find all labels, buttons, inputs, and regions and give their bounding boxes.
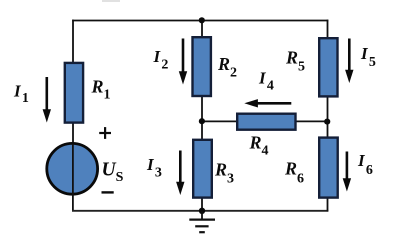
node C (right end of R4) (324, 119, 330, 125)
resistor R3 (193, 140, 212, 198)
arrow I5 (345, 39, 353, 84)
wire R3 to ground node (201, 197, 203, 211)
cropped text artifact top (102, 0, 120, 2)
wire top horizontal (72, 20, 328, 22)
minus sign of source (102, 191, 114, 193)
voltage source U_S (47, 143, 98, 194)
arrow I4 (points left) (244, 99, 291, 107)
wire bottom horizontal (72, 210, 328, 212)
arrow I1 (43, 77, 51, 123)
resistor R5 (319, 38, 337, 96)
wire through source (72, 144, 74, 211)
wire right vertical top (327, 20, 329, 39)
wire R4 to node C (295, 120, 328, 122)
arrow I3 (176, 151, 184, 196)
resistor R1 (65, 63, 83, 123)
arrow I6 (343, 152, 351, 192)
wire node B to R4 (202, 120, 238, 122)
node D (ground junction) (199, 208, 205, 214)
wire R2 branch drop (201, 20, 203, 38)
wire R6 to bottom (327, 198, 329, 212)
wire R5 to node C (327, 96, 329, 138)
wire left vertical (72, 20, 74, 64)
node A (top, junction of R2 branch) (199, 17, 205, 23)
wire R2 to R3 through node B (201, 96, 203, 141)
resistor R2 (193, 37, 211, 96)
arrow I2 (179, 39, 187, 85)
wire R1 to source (72, 123, 74, 145)
node B (left end of R4) (199, 118, 205, 124)
resistor R4 (horizontal) (237, 114, 295, 130)
plus sign of source (99, 127, 111, 139)
ground (189, 211, 215, 232)
resistor R6 (319, 138, 338, 198)
